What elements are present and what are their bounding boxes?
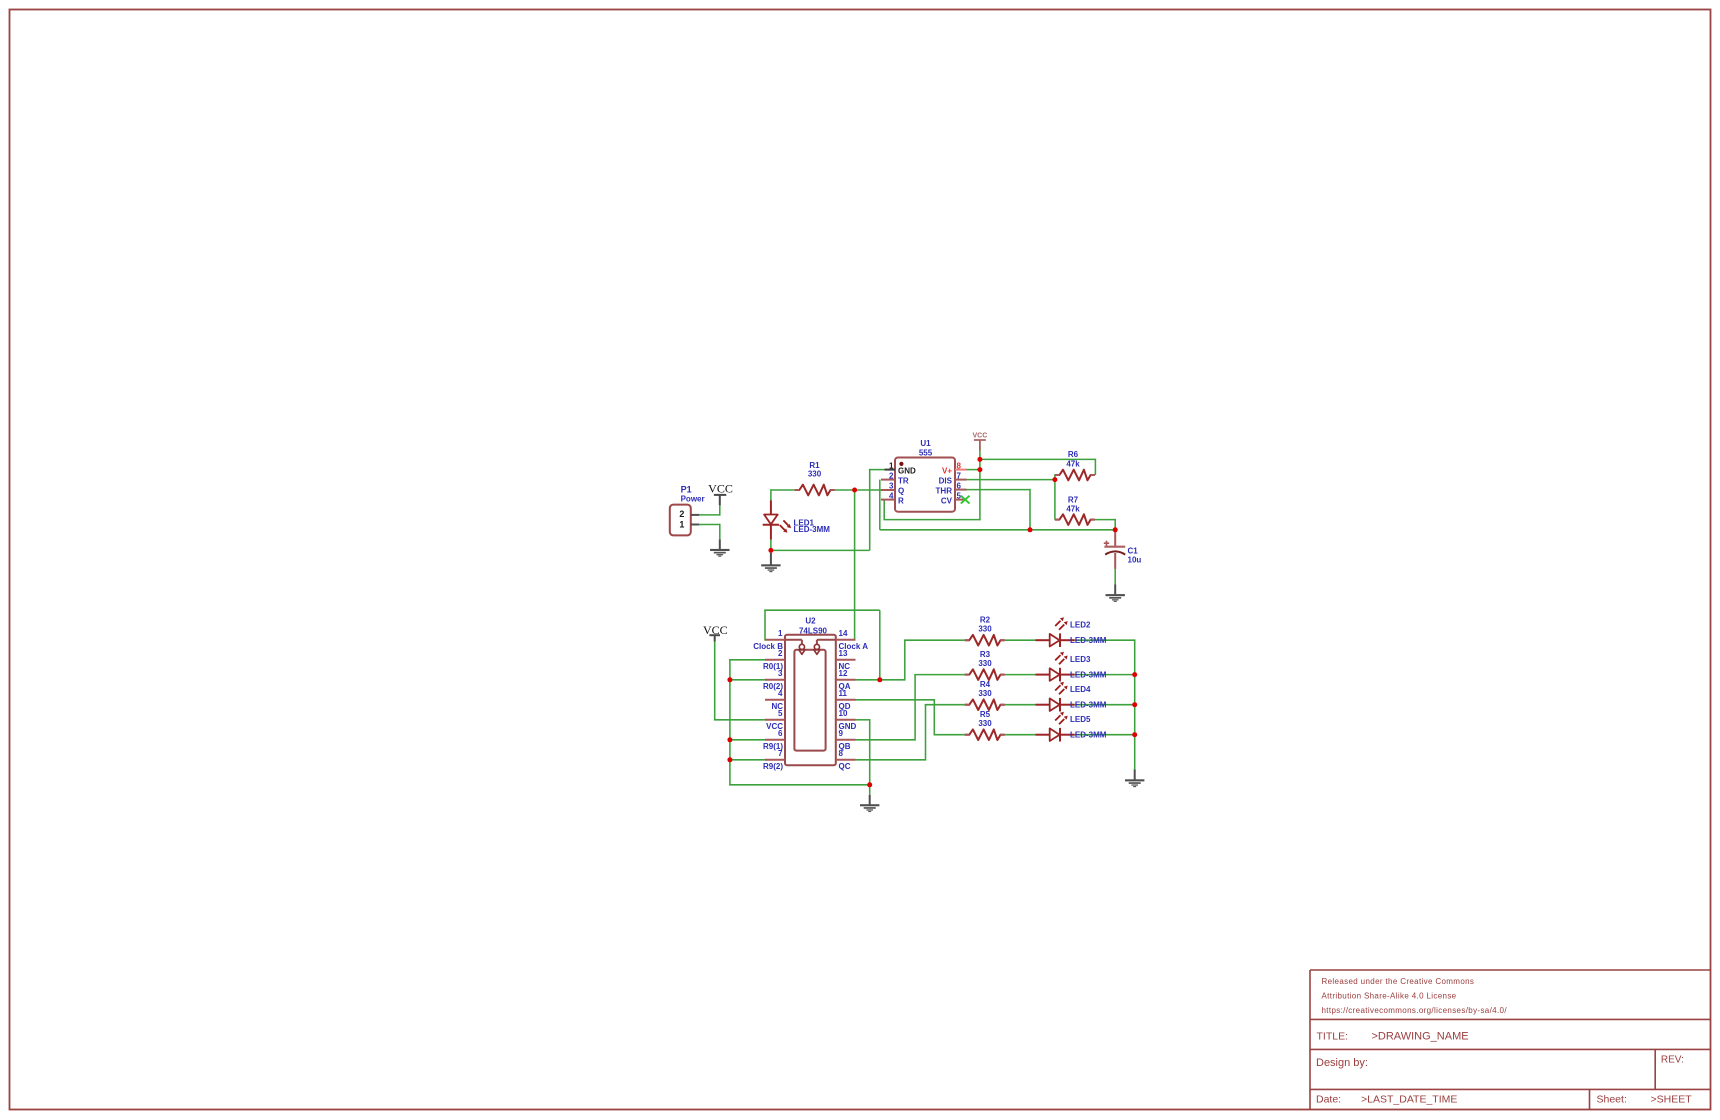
wire C1 bottom	[1114, 569, 1116, 585]
svg-text:74LS90: 74LS90	[799, 626, 828, 635]
ground at C1	[1106, 585, 1125, 603]
svg-text:Date:: Date:	[1316, 1093, 1341, 1105]
svg-text:Released under the Creative Co: Released under the Creative Commons	[1322, 977, 1475, 986]
wire trunk to pin6 R9(1)	[729, 739, 765, 741]
U2 pin 14 Clock A	[836, 639, 856, 641]
U2 pin 6 R9(1)	[765, 739, 785, 741]
svg-text:https://creativecommons.org/li: https://creativecommons.org/licenses/by-…	[1322, 1006, 1508, 1015]
svg-text:5: 5	[778, 709, 783, 718]
U1 pin 5 CV	[955, 499, 964, 501]
svg-text:LED4: LED4	[1070, 685, 1091, 694]
wire U1 pin6 THR	[967, 489, 1031, 491]
VCC power symbol at U2	[703, 623, 728, 642]
wire QD to R5	[934, 734, 965, 736]
U2 clock A wedge	[817, 639, 836, 641]
svg-text:TR: TR	[898, 477, 909, 486]
U1 pin 8 V+	[955, 469, 967, 471]
counter IC U2 74LS90	[753, 617, 868, 771]
wire R3 to LED3	[1005, 674, 1036, 676]
junction LED3 trunk	[1132, 672, 1137, 677]
svg-text:1: 1	[778, 629, 783, 638]
LED1 LED-3MM	[763, 500, 831, 539]
resistor R4 330	[965, 680, 1005, 710]
junction LED5 trunk	[1132, 732, 1137, 737]
svg-text:R7: R7	[1068, 495, 1079, 504]
resistor R3 330	[965, 650, 1005, 680]
svg-text:LED5: LED5	[1070, 715, 1091, 724]
VCC power symbol at U1	[973, 433, 988, 451]
U1 pin 7 DIS	[955, 479, 967, 481]
svg-text:47k: 47k	[1066, 505, 1080, 514]
svg-text:8: 8	[957, 462, 962, 471]
svg-text:7: 7	[778, 749, 783, 758]
wire GND net riser	[869, 470, 871, 551]
svg-text:14: 14	[839, 629, 848, 638]
junction R7 C1	[1113, 527, 1118, 532]
svg-text:U1: U1	[920, 439, 931, 448]
wire trunk to pin2 R0(1)	[729, 659, 765, 661]
svg-text:9: 9	[839, 729, 844, 738]
junction VCC pin8	[977, 467, 982, 472]
svg-text:LED-3MM: LED-3MM	[1070, 636, 1107, 645]
wire reset trunk	[729, 660, 731, 785]
wire LED3 cathode to trunk	[1075, 674, 1135, 676]
junction LED4 trunk	[1132, 702, 1137, 707]
svg-text:R1: R1	[809, 461, 820, 470]
svg-text:1: 1	[889, 462, 894, 471]
svg-text:R9(2): R9(2)	[763, 762, 783, 771]
U1 pin 1 GND	[885, 469, 896, 471]
wire U2 pin12 QA	[856, 679, 905, 681]
U1 pin 2 TR	[881, 479, 895, 481]
wire Clock B riser	[764, 610, 766, 640]
wire Clock B horizontal	[764, 609, 880, 611]
wire trunk bottom	[729, 784, 870, 786]
svg-text:Design by:: Design by:	[1316, 1057, 1368, 1069]
svg-text:2: 2	[889, 472, 894, 481]
svg-text:>DRAWING_NAME: >DRAWING_NAME	[1372, 1030, 1469, 1042]
svg-text:13: 13	[839, 649, 848, 658]
svg-text:DIS: DIS	[939, 477, 953, 486]
wire QC riser	[925, 705, 927, 761]
wire R7 right riser	[1114, 519, 1116, 531]
wire LED ground trunk	[1134, 639, 1136, 769]
wire QA riser to R2	[904, 640, 906, 680]
svg-text:LED-3MM: LED-3MM	[794, 525, 831, 534]
junction QA ClockB	[877, 677, 882, 682]
svg-text:3: 3	[889, 482, 894, 491]
wire R7 right	[1095, 519, 1115, 521]
svg-text:GND: GND	[898, 467, 916, 476]
wire TR THR long horizontal	[880, 529, 1115, 531]
ground at LED1	[761, 553, 780, 572]
svg-text:4: 4	[889, 492, 894, 501]
svg-text:7: 7	[957, 472, 962, 481]
U1 pin 3 Q	[881, 489, 895, 491]
svg-text:C1: C1	[1128, 546, 1139, 555]
U1 pin 4 R	[881, 499, 895, 501]
svg-text:LED-3MM: LED-3MM	[1070, 670, 1107, 679]
resistor R6 47k	[1055, 450, 1095, 480]
junction trunk R0(2)	[727, 677, 732, 682]
U2 pin 1 Clock B	[765, 639, 785, 641]
U2 pin 3 R0(2)	[765, 679, 785, 681]
wire QC to R4	[925, 704, 965, 706]
LED4 LED-3MM	[1036, 682, 1107, 712]
wire P1 pin2 to VCC riser	[699, 514, 720, 516]
svg-text:R6: R6	[1068, 450, 1079, 459]
svg-text:R: R	[898, 497, 904, 506]
svg-text:Q: Q	[898, 487, 904, 496]
U2 clock B wedge	[785, 639, 802, 641]
wire VCC to U2 pin5 riser	[714, 641, 716, 720]
wire LED2 cathode to trunk	[1075, 639, 1135, 641]
VCC power symbol at P1	[708, 482, 733, 506]
svg-text:>SHEET: >SHEET	[1651, 1093, 1693, 1105]
svg-text:330: 330	[978, 659, 992, 668]
junction trunk R9(1)	[727, 737, 732, 742]
wire trunk to pin7 R9(2)	[729, 759, 765, 761]
ground at P1	[710, 539, 729, 557]
wire QD riser	[933, 699, 935, 735]
LED5 LED-3MM	[1036, 712, 1107, 742]
resistor R5 330	[965, 710, 1005, 740]
wire R reset riser	[883, 500, 885, 520]
svg-text:LED3: LED3	[1070, 655, 1091, 664]
no-connect X on U1 pin 5	[961, 496, 970, 504]
wire GND net horizontal	[771, 549, 870, 551]
svg-text:Attribution Share-Alike 4.0 Li: Attribution Share-Alike 4.0 License	[1322, 991, 1457, 1000]
svg-text:11: 11	[839, 689, 848, 698]
junction ground trunk	[867, 782, 872, 787]
U2 pin 11 QD	[836, 699, 856, 701]
resistor R7 47k	[1055, 495, 1095, 524]
svg-text:LED-3MM: LED-3MM	[1070, 731, 1107, 740]
U1 pin 6 THR	[955, 489, 967, 491]
svg-text:THR: THR	[936, 487, 953, 496]
wire R reset horizontal	[883, 519, 980, 521]
wire QB to R3	[914, 674, 965, 676]
wire U2 pin9 QB	[856, 739, 916, 741]
U2 pin 10 GND	[836, 719, 856, 721]
wire U2 pin8 QC	[856, 759, 926, 761]
svg-text:LED2: LED2	[1070, 621, 1091, 630]
wire THR riser	[1029, 489, 1031, 530]
svg-text:330: 330	[978, 689, 992, 698]
wire VCC to R6 top	[980, 458, 1096, 460]
junction VCC R6	[977, 457, 982, 462]
svg-text:QC: QC	[839, 762, 851, 771]
wire TR riser	[879, 480, 881, 530]
svg-text:TITLE:: TITLE:	[1317, 1030, 1349, 1042]
wire U1 pin8 to VCC	[967, 469, 980, 471]
svg-text:330: 330	[978, 719, 992, 728]
svg-text:6: 6	[778, 729, 783, 738]
wire LED1 anode drop	[770, 489, 772, 500]
svg-text:10: 10	[839, 709, 848, 718]
U2 pin 8 QC	[836, 759, 856, 761]
wire GND net to U1 pin1	[869, 469, 885, 471]
wire VCC riser at U1	[979, 450, 981, 521]
svg-text:330: 330	[808, 470, 822, 479]
LED3 LED-3MM	[1036, 652, 1107, 682]
svg-text:2: 2	[679, 509, 684, 519]
U2 pin 2 R0(1)	[765, 659, 785, 661]
svg-text:47k: 47k	[1066, 459, 1080, 468]
wire R2 to LED2	[1005, 639, 1036, 641]
wire VCC riser	[719, 505, 721, 516]
junction LED1 cathode	[768, 548, 773, 553]
svg-text:12: 12	[839, 669, 848, 678]
svg-text:R3: R3	[980, 650, 991, 659]
wire QB riser	[914, 675, 916, 741]
wire U2 pin10 GND	[856, 719, 870, 721]
svg-text:LED-3MM: LED-3MM	[1070, 701, 1107, 710]
U2 pin 5 VCC	[765, 719, 785, 721]
ground at LED trunk	[1125, 770, 1144, 788]
resistor R2 330	[965, 616, 1005, 646]
svg-text:VCC: VCC	[708, 482, 733, 496]
U2 pin 7 R9(2)	[765, 759, 785, 761]
wire QA to R2	[904, 639, 965, 641]
svg-text:R5: R5	[980, 710, 991, 719]
ground at U2	[860, 795, 879, 812]
U2 pin 4 NC	[765, 699, 785, 701]
svg-text:R2: R2	[980, 616, 991, 625]
wire LED1 cathode to junction	[770, 539, 772, 553]
wire LED4 cathode to trunk	[1075, 704, 1135, 706]
svg-text:R4: R4	[980, 680, 991, 689]
svg-text:Power: Power	[681, 494, 705, 503]
wire R5 to LED5	[1005, 734, 1036, 736]
junction THR	[1028, 527, 1033, 532]
wire U1 pin7 DIS to R6	[967, 479, 1055, 481]
wire trunk to pin3 R0(2)	[729, 679, 765, 681]
wire VCC to U2 pin5	[714, 719, 766, 721]
svg-text:1: 1	[679, 520, 684, 530]
svg-text:VCC: VCC	[973, 433, 988, 440]
svg-text:P1: P1	[681, 484, 692, 494]
wire LED1 anode to R1	[771, 489, 795, 491]
wire ground riser	[719, 524, 721, 540]
wire R6 to R7 riser	[1054, 480, 1056, 520]
U2 pin 12 QA	[836, 679, 856, 681]
wire R4 to LED4	[1005, 704, 1036, 706]
resistor R1 330	[795, 461, 835, 495]
svg-text:330: 330	[978, 625, 992, 634]
wire Q to Clock A riser	[854, 490, 856, 640]
wire R6 right riser	[1094, 459, 1096, 475]
capacitor C1 10u	[1104, 530, 1142, 569]
wire R1 to U1 pin3 Q	[835, 489, 881, 491]
U2 pin 13 NC	[836, 659, 856, 661]
svg-text:REV:: REV:	[1661, 1055, 1684, 1066]
svg-text:>LAST_DATE_TIME: >LAST_DATE_TIME	[1361, 1093, 1457, 1105]
junction R1 Q ClockA	[852, 488, 857, 493]
wire Clock B to QA junction	[879, 610, 881, 680]
wire P1 pin1 to ground riser	[699, 524, 720, 526]
wire U2 pin11 QD	[856, 699, 935, 701]
svg-text:Sheet:: Sheet:	[1597, 1093, 1627, 1105]
svg-text:U2: U2	[805, 617, 816, 626]
connector P1 Power	[670, 484, 705, 535]
svg-text:555: 555	[919, 449, 933, 458]
svg-text:4: 4	[778, 689, 783, 698]
wire R6 left nub	[1054, 474, 1056, 480]
svg-text:8: 8	[839, 749, 844, 758]
svg-text:CV: CV	[941, 497, 953, 506]
svg-text:3: 3	[778, 669, 783, 678]
U2 pin 9 QB	[836, 739, 856, 741]
junction trunk R9(2)	[727, 757, 732, 762]
wire U2 GND riser	[869, 719, 871, 795]
LED2 LED-3MM	[1036, 617, 1107, 647]
svg-text:2: 2	[778, 649, 783, 658]
timer IC U1 555	[881, 439, 967, 512]
svg-text:V+: V+	[942, 467, 952, 476]
svg-text:10u: 10u	[1128, 555, 1142, 564]
wire LED5 cathode to trunk	[1075, 734, 1135, 736]
junction DIS R6 R7	[1052, 477, 1057, 482]
svg-text:6: 6	[957, 482, 962, 491]
